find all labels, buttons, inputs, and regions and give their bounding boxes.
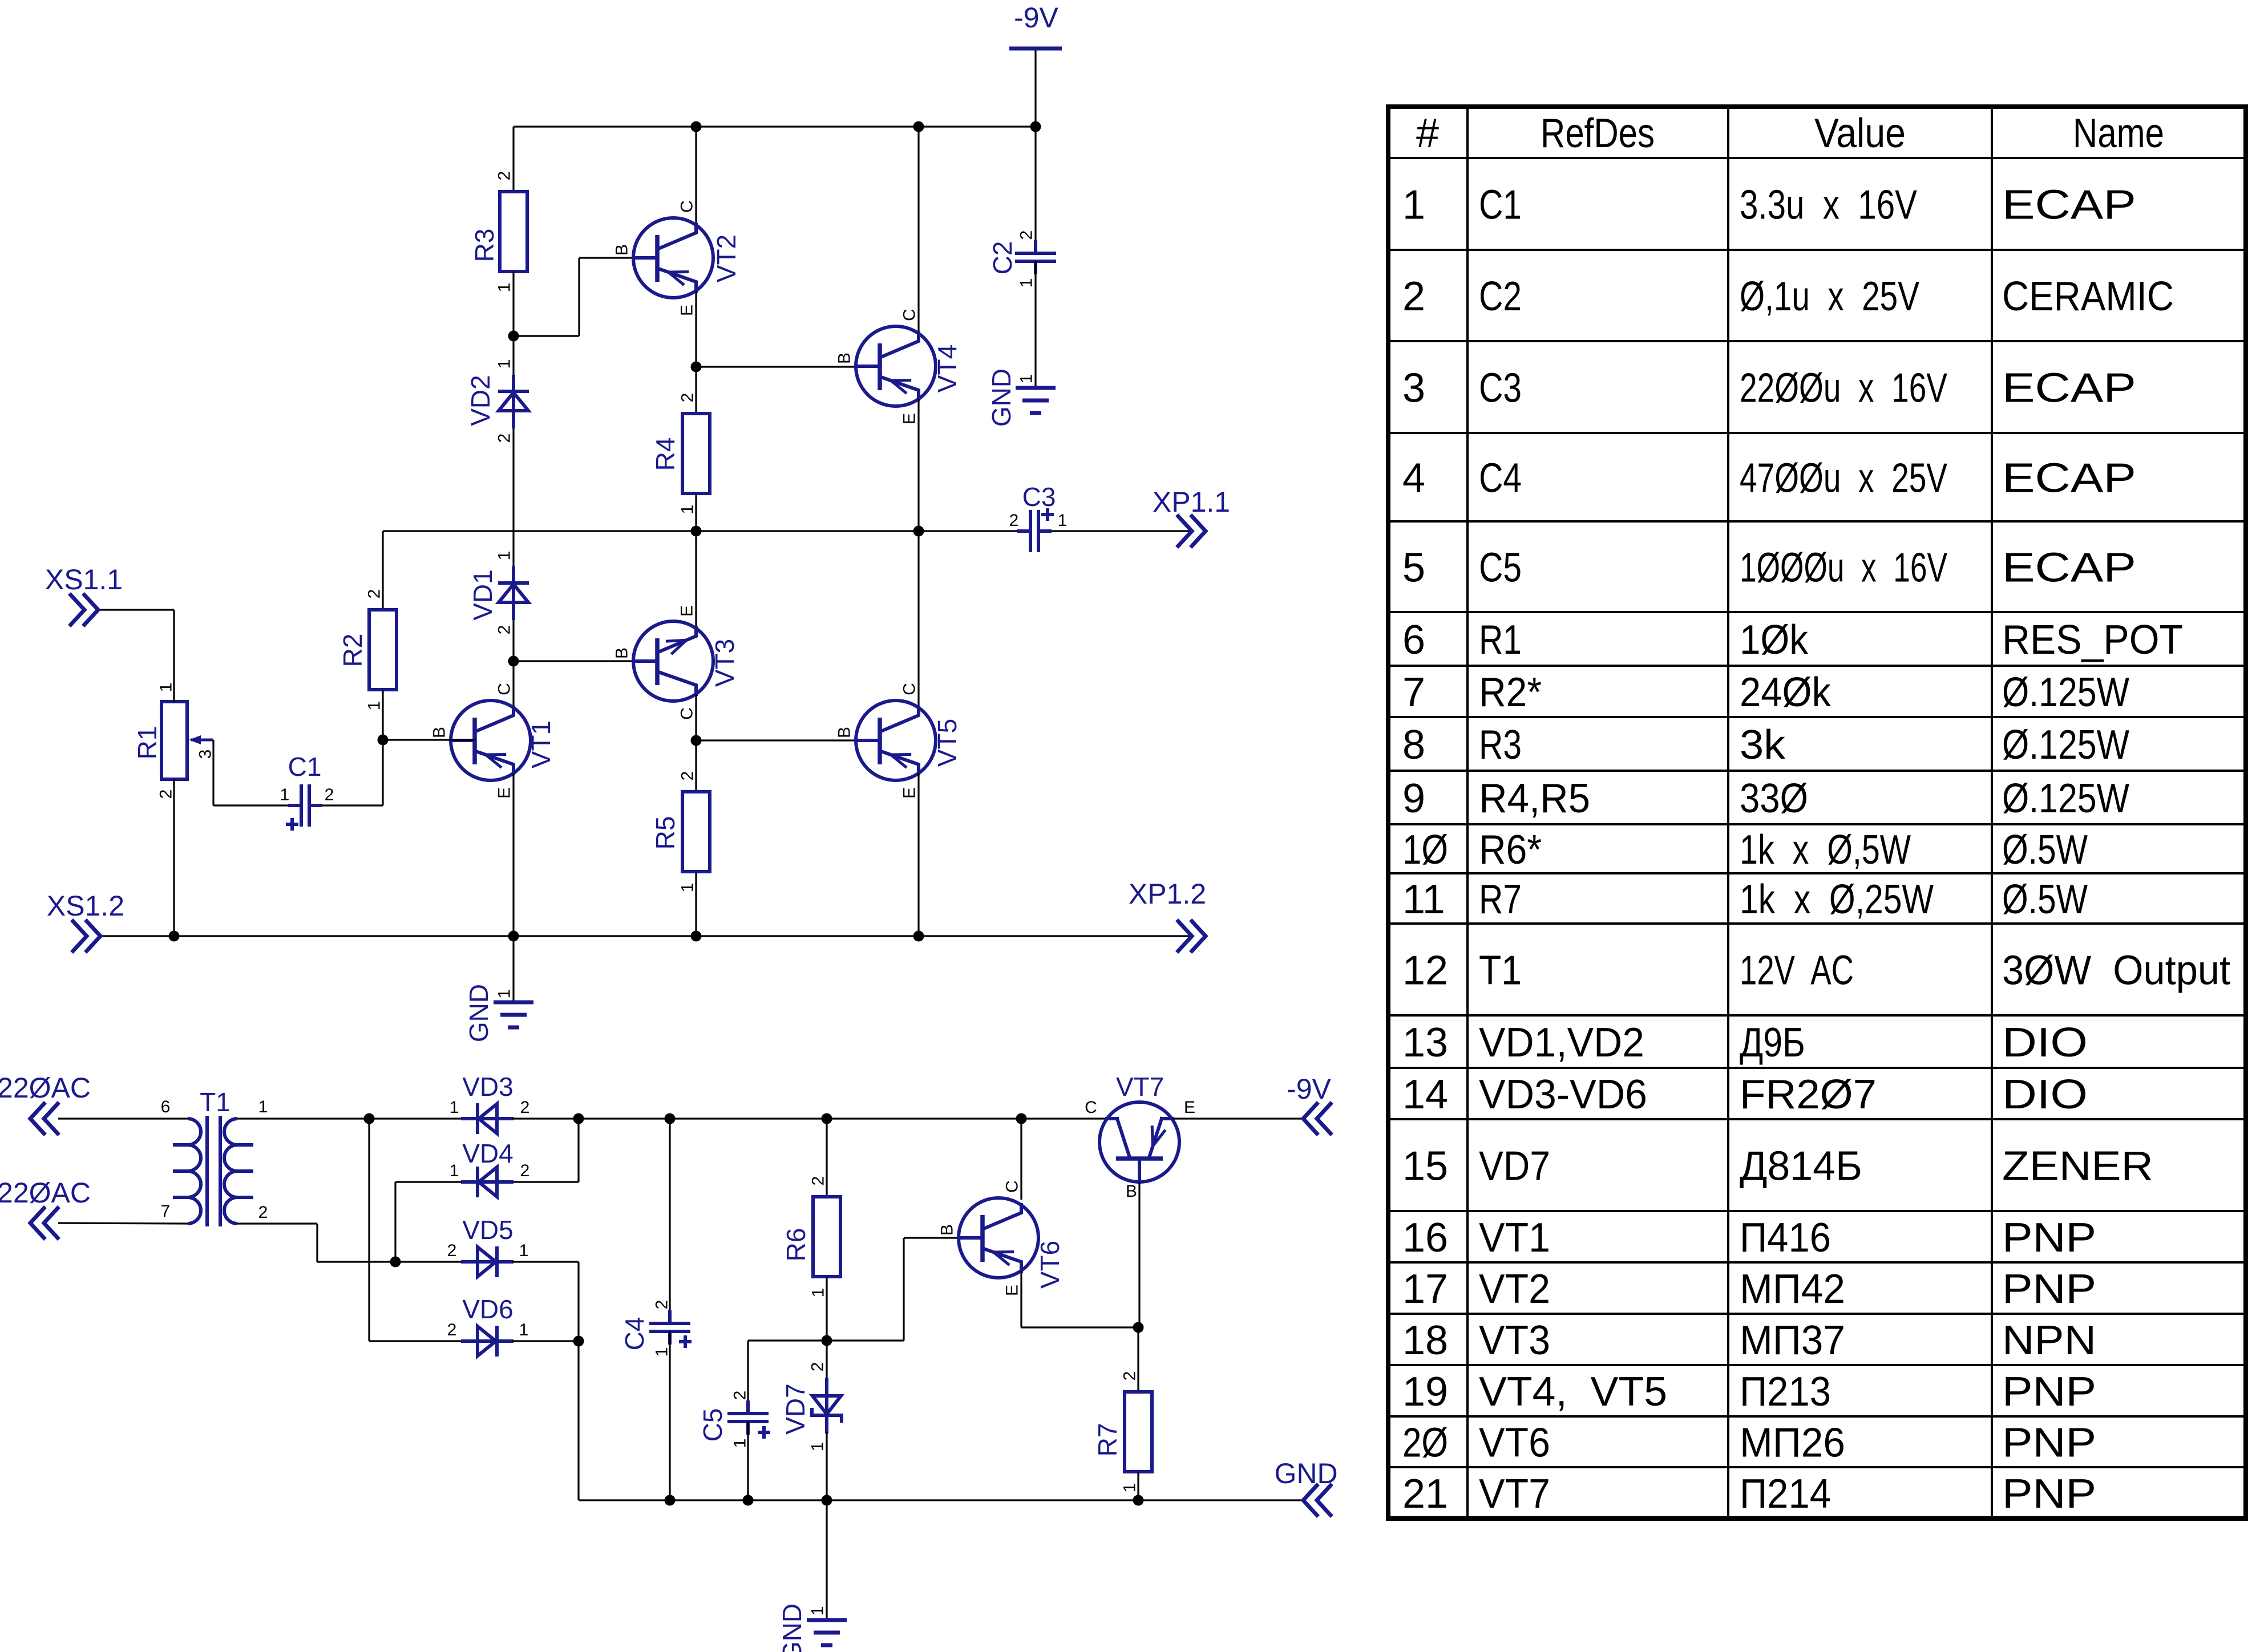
svg-text:ECAP: ECAP bbox=[2002, 366, 2136, 411]
svg-text:E: E bbox=[1184, 1098, 1195, 1117]
wire VD7 top lead bbox=[826, 1341, 827, 1379]
node top rail / VT2 collector bbox=[691, 122, 702, 132]
svg-text:C: C bbox=[900, 309, 919, 321]
svg-text:C2: C2 bbox=[988, 241, 1017, 275]
node ground rail / C4 bbox=[665, 1495, 676, 1506]
wire C2 to ground bbox=[1034, 261, 1036, 388]
svg-text:E: E bbox=[495, 787, 514, 799]
transistor VT5 bbox=[856, 701, 936, 780]
svg-text:VT4, VT5: VT4, VT5 bbox=[1479, 1369, 1667, 1415]
svg-text:2: 2 bbox=[678, 771, 697, 781]
svg-text:C: C bbox=[1085, 1098, 1097, 1117]
table row 7 R2* bbox=[1402, 670, 2129, 715]
svg-text:CERAMIC: CERAMIC bbox=[2002, 274, 2174, 319]
svg-text:3k: 3k bbox=[1740, 722, 1786, 768]
ground symbol (C2) bbox=[1016, 388, 1056, 413]
pin C of VT2 bbox=[678, 200, 697, 213]
svg-text:Ø.5W: Ø.5W bbox=[2002, 827, 2088, 873]
svg-text:T1: T1 bbox=[1479, 948, 1522, 994]
table row 11 R7 bbox=[1402, 877, 2088, 922]
svg-text:1: 1 bbox=[519, 1321, 529, 1339]
svg-text:2: 2 bbox=[653, 1300, 672, 1310]
label VT7 bbox=[1116, 1072, 1164, 1102]
svg-text:П416: П416 bbox=[1740, 1215, 1831, 1261]
pin 7 of T1 bbox=[161, 1202, 171, 1221]
node R6 / C5 / VD7 / VT6 base bbox=[822, 1335, 832, 1346]
table header bbox=[1416, 111, 2164, 156]
svg-text:3.3u x 16V: 3.3u x 16V bbox=[1740, 183, 1917, 228]
svg-text:R1: R1 bbox=[1479, 617, 1522, 663]
svg-text:2: 2 bbox=[1009, 511, 1019, 530]
table row 12 T1 bbox=[1402, 948, 2230, 994]
svg-text:Ø.5W: Ø.5W bbox=[2002, 877, 2088, 922]
diode VD2 bbox=[498, 375, 529, 428]
svg-text:VD2: VD2 bbox=[466, 375, 495, 426]
pin 2 of R3 bbox=[495, 171, 514, 181]
svg-text:VD3: VD3 bbox=[462, 1072, 513, 1102]
svg-text:2Ø: 2Ø bbox=[1402, 1420, 1448, 1466]
wire C1 pin1 lead bbox=[213, 804, 288, 806]
svg-text:1: 1 bbox=[1017, 278, 1036, 288]
pin 1 of R2 bbox=[365, 701, 384, 711]
connector XS1.1 chevrons bbox=[71, 595, 98, 625]
resistor R5 bbox=[682, 792, 710, 872]
label VT5 bbox=[932, 719, 962, 767]
svg-text:2: 2 bbox=[157, 789, 176, 799]
svg-text:2: 2 bbox=[495, 434, 514, 443]
svg-text:1: 1 bbox=[280, 785, 290, 804]
svg-text:VT1: VT1 bbox=[526, 720, 556, 768]
svg-text:Ø.125W: Ø.125W bbox=[2002, 670, 2129, 715]
pin 1 of VD7 bbox=[808, 1442, 827, 1452]
wire VD4 to VD5 node bbox=[394, 1182, 396, 1262]
wire VD4 riser bbox=[577, 1119, 579, 1182]
node VD3 / VD4 rail tap bbox=[573, 1114, 584, 1124]
svg-text:18: 18 bbox=[1402, 1318, 1448, 1363]
svg-text:C4: C4 bbox=[620, 1317, 649, 1351]
svg-text:1: 1 bbox=[1058, 511, 1068, 530]
svg-text:22ØAC: 22ØAC bbox=[0, 1072, 91, 1104]
pin 1 of VD4 bbox=[450, 1161, 459, 1180]
resistor R4 bbox=[682, 414, 710, 493]
svg-text:VD4: VD4 bbox=[462, 1139, 513, 1168]
wire R1 wiper route bbox=[212, 740, 214, 805]
wire R3 top lead bbox=[512, 127, 514, 192]
pin B of VT4 bbox=[835, 353, 854, 364]
table row 1 C1 bbox=[1402, 183, 2136, 228]
svg-text:XP1.2: XP1.2 bbox=[1129, 878, 1206, 910]
pin 1 of VD2 bbox=[495, 359, 514, 369]
node ground rail / R7 bbox=[1133, 1495, 1144, 1506]
node VT3 collector / R5 / VT5 base bbox=[691, 735, 702, 746]
svg-text:3: 3 bbox=[196, 750, 215, 759]
wire R3 to node bbox=[512, 272, 514, 336]
wire bottom rail bbox=[100, 935, 1191, 937]
svg-text:B: B bbox=[938, 1224, 957, 1236]
transistor VT2 bbox=[633, 218, 713, 298]
svg-text:C: C bbox=[678, 707, 697, 720]
table row 21 VT7 bbox=[1402, 1471, 2096, 1517]
resistor R7 bbox=[1125, 1392, 1152, 1472]
pin B of VT7 bbox=[1126, 1182, 1137, 1201]
svg-text:3: 3 bbox=[1402, 366, 1425, 411]
wire VD2 to VD1 (crosses mid rail) bbox=[512, 428, 514, 568]
svg-text:C1: C1 bbox=[288, 752, 322, 782]
pin 2 of VD1 bbox=[495, 625, 514, 635]
svg-text:2: 2 bbox=[258, 1203, 268, 1222]
pin 2 of R2 bbox=[365, 589, 384, 599]
label VT6 bbox=[1035, 1241, 1065, 1289]
pin 1 of R1 bbox=[157, 683, 176, 693]
svg-text:1k x Ø,25W: 1k x Ø,25W bbox=[1740, 877, 1934, 922]
transistor VT7 bbox=[1099, 1102, 1179, 1182]
wire T1 pin2 route bbox=[237, 1224, 395, 1262]
wire R2 bottom lead bbox=[382, 690, 383, 740]
wire -9V supply drop bbox=[1034, 48, 1036, 127]
svg-text:R4,R5: R4,R5 bbox=[1479, 776, 1590, 821]
table row 19 VT4, VT5 bbox=[1402, 1369, 2096, 1415]
svg-text:1: 1 bbox=[678, 883, 697, 893]
capacitor C5 bbox=[727, 1400, 769, 1435]
label VD2 bbox=[466, 375, 495, 426]
wire VT6 collector lead bbox=[1020, 1119, 1022, 1200]
wire VD4 left lead bbox=[395, 1181, 462, 1183]
label R6 bbox=[781, 1228, 811, 1262]
pin 1 of C4 bbox=[653, 1347, 672, 1357]
svg-text:Ø,1u x 25V: Ø,1u x 25V bbox=[1740, 274, 1919, 319]
capacitor C3 bbox=[1017, 510, 1052, 552]
table row 15 VD7 bbox=[1402, 1144, 2153, 1189]
svg-text:GND: GND bbox=[1274, 1457, 1337, 1489]
svg-text:-9V: -9V bbox=[1287, 1073, 1331, 1105]
label VT2 bbox=[711, 234, 741, 282]
svg-text:E: E bbox=[678, 305, 697, 316]
svg-text:33Ø: 33Ø bbox=[1740, 776, 1808, 821]
node bottom rail / VT1 emitter bbox=[508, 931, 519, 942]
capacitor C2 bbox=[1015, 240, 1056, 274]
wire R7 top lead bbox=[1137, 1327, 1139, 1392]
resistor R3 bbox=[500, 192, 527, 272]
svg-text:2: 2 bbox=[495, 625, 514, 635]
label XP1.1 bbox=[1153, 486, 1230, 518]
label VD4 bbox=[462, 1139, 513, 1168]
svg-text:PNP: PNP bbox=[2002, 1420, 2096, 1466]
pin 1 of T1 bbox=[258, 1098, 268, 1116]
svg-text:B: B bbox=[835, 353, 854, 364]
svg-text:Ø.125W: Ø.125W bbox=[2002, 722, 2129, 768]
connector XS1.2 chevrons bbox=[73, 921, 100, 951]
svg-text:VT1: VT1 bbox=[1479, 1215, 1550, 1261]
label VD1 bbox=[468, 569, 498, 620]
wire VT2 emitter lead bbox=[695, 291, 697, 367]
svg-text:1: 1 bbox=[450, 1161, 459, 1180]
svg-text:6: 6 bbox=[161, 1098, 171, 1116]
pin E of VT3 bbox=[678, 605, 697, 617]
pin E of VT5 bbox=[900, 787, 919, 799]
pin 2 of C4 bbox=[653, 1300, 672, 1310]
label VT4 bbox=[932, 345, 962, 392]
wire VT4 collector lead bbox=[917, 127, 919, 335]
svg-text:C5: C5 bbox=[698, 1408, 727, 1442]
svg-text:E: E bbox=[900, 413, 919, 424]
label GND (C2) bbox=[987, 369, 1016, 427]
table row 1Ø R6* bbox=[1402, 827, 2088, 873]
plus mark C5 bbox=[758, 1426, 770, 1439]
svg-text:2: 2 bbox=[809, 1176, 828, 1186]
label C1 bbox=[288, 752, 322, 782]
table row 14 VD3-VD6 bbox=[1402, 1072, 2088, 1117]
pin C of VT7 bbox=[1085, 1098, 1097, 1117]
label VT3 bbox=[710, 639, 739, 687]
wire R5 top lead bbox=[695, 740, 697, 792]
svg-text:1: 1 bbox=[731, 1439, 750, 1448]
wire C5 branch bbox=[748, 1341, 827, 1411]
wire VD3 to -9V rail bbox=[512, 1117, 1107, 1119]
svg-text:XS1.1: XS1.1 bbox=[45, 564, 123, 596]
svg-text:2: 2 bbox=[1017, 230, 1036, 240]
wire 220AC-2 to T1 bbox=[58, 1223, 188, 1224]
svg-text:R2*: R2* bbox=[1479, 670, 1542, 715]
pin 2 of VD4 bbox=[520, 1161, 530, 1180]
resistor R2 bbox=[369, 610, 397, 690]
svg-text:C3: C3 bbox=[1022, 482, 1056, 512]
svg-text:Name: Name bbox=[2073, 111, 2164, 156]
svg-text:VT4: VT4 bbox=[932, 345, 962, 392]
svg-text:VT2: VT2 bbox=[1479, 1266, 1550, 1312]
svg-text:2: 2 bbox=[325, 785, 334, 804]
svg-text:Д814Б: Д814Б bbox=[1740, 1144, 1862, 1189]
pin 1 of C3 bbox=[1058, 511, 1068, 530]
svg-text:E: E bbox=[1003, 1285, 1022, 1296]
svg-text:-9V: -9V bbox=[1014, 2, 1058, 34]
svg-text:R1: R1 bbox=[132, 726, 162, 760]
svg-text:RefDes: RefDes bbox=[1541, 111, 1655, 156]
svg-text:1: 1 bbox=[495, 283, 514, 293]
pin 1 of VD5 bbox=[519, 1241, 529, 1260]
capacitor C1 bbox=[288, 784, 322, 827]
svg-text:2: 2 bbox=[520, 1161, 530, 1180]
label R2 bbox=[338, 634, 367, 667]
node VT6 emitter / VT7 base / R7 bbox=[1133, 1322, 1144, 1333]
svg-text:PNP: PNP bbox=[2002, 1215, 2096, 1261]
svg-text:22ØAC: 22ØAC bbox=[0, 1177, 91, 1209]
svg-text:VT3: VT3 bbox=[710, 639, 739, 687]
node VD5 / VD6 ground side bbox=[573, 1336, 584, 1347]
svg-text:R7: R7 bbox=[1093, 1423, 1122, 1457]
svg-text:VD7: VD7 bbox=[1479, 1144, 1550, 1189]
svg-text:VT3: VT3 bbox=[1479, 1318, 1550, 1363]
svg-text:PNP: PNP bbox=[2002, 1471, 2096, 1517]
svg-text:1: 1 bbox=[495, 551, 514, 561]
pin 2 of C3 bbox=[1009, 511, 1019, 530]
svg-text:1: 1 bbox=[157, 683, 176, 693]
svg-text:VD7: VD7 bbox=[781, 1383, 810, 1434]
svg-text:24Øk: 24Øk bbox=[1740, 670, 1832, 715]
wire VT4 base route bbox=[696, 366, 857, 367]
svg-text:GND: GND bbox=[464, 984, 494, 1042]
svg-text:R7: R7 bbox=[1479, 877, 1522, 922]
svg-text:1ØØØu x 16V: 1ØØØu x 16V bbox=[1740, 545, 1947, 591]
wire VT2 base route bbox=[514, 258, 634, 336]
svg-text:GND: GND bbox=[987, 369, 1016, 427]
wire VD1 to node bbox=[512, 620, 514, 661]
svg-text:B: B bbox=[1126, 1182, 1137, 1201]
svg-text:VD6: VD6 bbox=[462, 1294, 513, 1324]
pin 2 of VD6 bbox=[447, 1321, 457, 1339]
pin 1 of GND (psu) bbox=[808, 1606, 827, 1616]
svg-text:11: 11 bbox=[1402, 877, 1445, 922]
wire R2 top lead bbox=[382, 531, 383, 610]
svg-text:2: 2 bbox=[520, 1098, 530, 1117]
svg-text:R3: R3 bbox=[1479, 722, 1522, 768]
svg-text:Д9Б: Д9Б bbox=[1740, 1020, 1805, 1066]
transistor VT1 bbox=[451, 701, 531, 780]
svg-text:XS1.2: XS1.2 bbox=[47, 890, 124, 922]
svg-text:2: 2 bbox=[731, 1391, 750, 1400]
connector GND-out chevrons bbox=[1303, 1485, 1331, 1515]
ground symbol (amplifier) bbox=[494, 1002, 533, 1027]
svg-text:ZENER: ZENER bbox=[2002, 1144, 2153, 1189]
svg-text:#: # bbox=[1416, 111, 1439, 156]
wire VD5 left lead bbox=[395, 1261, 462, 1262]
node VT2 emitter / R4 / VT4 base bbox=[691, 362, 702, 372]
svg-text:C3: C3 bbox=[1479, 366, 1522, 411]
pin 1 of GND (C2) bbox=[1017, 374, 1036, 384]
svg-text:1: 1 bbox=[365, 701, 384, 711]
wire C4 bottom lead bbox=[669, 1331, 670, 1500]
pin 1 of R6 bbox=[809, 1288, 828, 1298]
pin B of VT3 bbox=[613, 647, 632, 659]
label VD6 bbox=[462, 1294, 513, 1324]
svg-text:VD3-VD6: VD3-VD6 bbox=[1479, 1072, 1647, 1117]
transistor VT3 (NPN) bbox=[633, 621, 713, 701]
svg-text:МП37: МП37 bbox=[1740, 1318, 1845, 1363]
svg-text:Ø.125W: Ø.125W bbox=[2002, 776, 2129, 821]
wire ground rail (psu) bbox=[579, 1499, 1303, 1501]
node bottom rail / R1 bbox=[169, 931, 180, 942]
pin B of VT5 bbox=[835, 727, 854, 738]
label GND (amplifier) bbox=[464, 984, 494, 1042]
table row 9 R4,R5 bbox=[1402, 776, 2129, 821]
svg-text:B: B bbox=[613, 647, 632, 659]
svg-text:3ØW Output: 3ØW Output bbox=[2002, 948, 2230, 994]
svg-text:7: 7 bbox=[1402, 670, 1425, 715]
zener diode VD7 bbox=[812, 1378, 842, 1434]
connector -9V out chevrons bbox=[1303, 1104, 1331, 1133]
wire R7 bottom lead bbox=[1137, 1472, 1139, 1500]
pin E of VT6 bbox=[1003, 1285, 1022, 1296]
wire C1 pin2 lead bbox=[322, 804, 383, 806]
wire VD2 top lead bbox=[512, 336, 514, 376]
wire 220AC-1 to T1 bbox=[58, 1117, 188, 1119]
pin 1 of VD6 bbox=[519, 1321, 529, 1339]
svg-text:П214: П214 bbox=[1740, 1471, 1831, 1517]
node ground rail / C5 bbox=[743, 1495, 754, 1506]
net label -9V (top) bbox=[1014, 2, 1058, 34]
svg-text:2: 2 bbox=[808, 1362, 827, 1372]
node ground rail / VD7 bbox=[822, 1495, 832, 1506]
diode VD6 bbox=[461, 1326, 514, 1357]
svg-text:12V AC: 12V AC bbox=[1740, 948, 1854, 994]
table row 13 VD1,VD2 bbox=[1402, 1020, 2088, 1066]
wire VT5 base route bbox=[696, 739, 857, 741]
svg-text:B: B bbox=[430, 727, 449, 738]
table row 4 C4 bbox=[1402, 456, 2136, 501]
svg-text:PNP: PNP bbox=[2002, 1266, 2096, 1312]
label C4 bbox=[620, 1317, 649, 1351]
svg-text:МП42: МП42 bbox=[1740, 1266, 1845, 1312]
svg-text:22ØØu x 16V: 22ØØu x 16V bbox=[1740, 366, 1947, 411]
pin 1 of C1 bbox=[280, 785, 290, 804]
svg-text:NPN: NPN bbox=[2002, 1318, 2096, 1363]
svg-text:МП26: МП26 bbox=[1740, 1420, 1845, 1466]
wire VT7 base lead bbox=[1138, 1182, 1140, 1327]
svg-text:C: C bbox=[678, 200, 697, 213]
svg-text:1: 1 bbox=[258, 1098, 268, 1116]
label T1 bbox=[200, 1087, 231, 1117]
node top rail / C2 bbox=[1030, 122, 1041, 132]
svg-text:VT6: VT6 bbox=[1479, 1420, 1550, 1466]
svg-text:2: 2 bbox=[678, 393, 697, 403]
resistor R1 (potentiometer) bbox=[161, 702, 187, 779]
wire T1 pin1 to VD3 node bbox=[237, 1117, 462, 1119]
svg-text:19: 19 bbox=[1402, 1369, 1448, 1415]
svg-text:C: C bbox=[900, 683, 919, 695]
wire C5 bottom lead bbox=[747, 1422, 749, 1500]
label GND (output) bbox=[1274, 1457, 1337, 1489]
label XS1.2 bbox=[47, 890, 124, 922]
svg-text:XP1.1: XP1.1 bbox=[1153, 486, 1230, 518]
pin E of VT7 bbox=[1184, 1098, 1195, 1117]
table row 18 VT3 bbox=[1402, 1318, 2096, 1363]
pin 2 of R7 bbox=[1121, 1371, 1139, 1381]
svg-text:C5: C5 bbox=[1479, 545, 1522, 591]
node VD1 / VT1 collector / VT3 base bbox=[508, 656, 519, 667]
wire VT1 emitter lead bbox=[512, 774, 514, 936]
wire VT4 emitter lead bbox=[917, 399, 919, 531]
wire XS1.1 to R1 bbox=[98, 610, 174, 702]
svg-text:47ØØu x 25V: 47ØØu x 25V bbox=[1740, 456, 1947, 501]
svg-text:VT6: VT6 bbox=[1035, 1241, 1065, 1289]
wire VT5 collector lead bbox=[917, 531, 919, 709]
wire VT5 emitter lead bbox=[917, 774, 919, 936]
connector XP1.1 chevrons bbox=[1178, 516, 1206, 546]
pin 1 of C5 bbox=[731, 1439, 750, 1448]
pin 2 of C1 bbox=[325, 785, 334, 804]
svg-text:R6*: R6* bbox=[1479, 827, 1542, 873]
svg-text:1: 1 bbox=[1402, 183, 1425, 228]
svg-text:R4: R4 bbox=[650, 438, 680, 471]
wire C4 top lead bbox=[669, 1119, 670, 1320]
pin E of VT2 bbox=[678, 305, 697, 316]
wire VD4 right lead bbox=[512, 1181, 579, 1183]
wire VD6 branch drop bbox=[368, 1119, 370, 1341]
wire VT1 base route bbox=[383, 739, 475, 740]
wire VT1 collector lead bbox=[512, 661, 514, 708]
pin 1 of R3 bbox=[495, 283, 514, 293]
svg-text:1: 1 bbox=[653, 1347, 672, 1357]
pin 2 of C2 bbox=[1017, 230, 1036, 240]
label R3 bbox=[470, 229, 499, 262]
svg-text:21: 21 bbox=[1402, 1471, 1448, 1517]
transistor VT6 bbox=[959, 1198, 1038, 1278]
wire mid rail bbox=[383, 530, 1017, 532]
svg-text:1Ø: 1Ø bbox=[1402, 827, 1448, 873]
svg-text:C: C bbox=[1003, 1180, 1022, 1193]
wire R1 bottom lead bbox=[173, 779, 175, 936]
wire R6 bottom lead bbox=[826, 1277, 827, 1341]
wire C2 top lead bbox=[1034, 127, 1036, 253]
